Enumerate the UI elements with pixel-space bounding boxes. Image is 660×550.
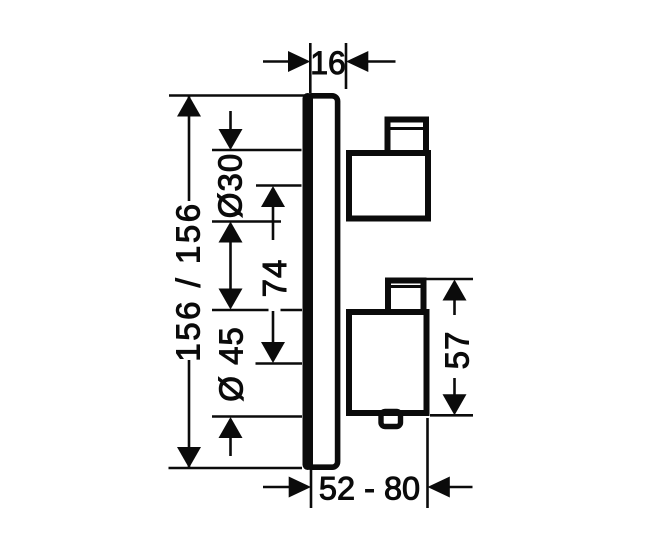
dim 16: left arrow [288, 51, 310, 72]
dim 16: left leader [263, 60, 289, 63]
dim 16: right arrow [346, 51, 368, 72]
wall plate thick front face band [303, 93, 314, 470]
svg-text:52 - 80: 52 - 80 [319, 471, 420, 507]
top handle body [349, 153, 428, 219]
dim O45: bottom extension line [212, 415, 302, 418]
dim O30: top arrow tail [229, 111, 232, 131]
dim 156/156: dimension line lower segment [188, 360, 191, 468]
dim 156/156: bottom arrow [177, 447, 201, 468]
dim 16: right leader [368, 60, 396, 63]
svg-text:Ø 45: Ø 45 [213, 326, 250, 402]
dim 57: bottom extension line [430, 414, 473, 417]
dim 156/156: top extension line [169, 94, 312, 97]
dim O30: top extension line [212, 149, 302, 152]
bottom handle body [349, 312, 427, 413]
wall plate outline (rounded escutcheon, side view) [306, 96, 338, 467]
bottom handle knob [388, 281, 424, 313]
svg-text:156 / 156: 156 / 156 [170, 201, 207, 361]
dim 52-80: left extension line [310, 466, 313, 508]
bottom handle lower tab [381, 412, 401, 427]
dim O30: top arrow (points down) [219, 129, 243, 150]
dim O45: bottom arrow (points up) [219, 417, 243, 438]
dim 156/156: top arrow [177, 96, 201, 117]
dim 74: top extension line [256, 184, 302, 187]
svg-text:16: 16 [310, 45, 346, 81]
dim O30: bottom extension line [212, 220, 281, 223]
dim 156/156: bottom extension line [169, 467, 303, 470]
dim 52-80: right arrow (points left) [428, 477, 450, 498]
dim 74: top arrow tail [272, 206, 275, 240]
dim 57: dimension line lower segment [453, 378, 456, 397]
dim 57: top extension line [427, 278, 474, 281]
dim 16: left extension line [309, 43, 312, 93]
svg-text:74: 74 [256, 259, 293, 298]
dim 156/156: dimension line upper segment [188, 96, 191, 202]
dim O45: bottom arrow tail [229, 437, 232, 456]
dim 57: dimension line upper segment [453, 299, 456, 315]
dim O45: top extension line (right of 74 leader) [281, 309, 303, 312]
dim 57: bottom arrow (points down) [443, 394, 467, 415]
dim 74: bottom arrow (points down) [261, 342, 285, 363]
dim O30: bottom arrow (points up) [219, 222, 243, 243]
dim 74: bottom extension line [256, 362, 303, 365]
dim O45: top arrow (points down) [219, 289, 243, 310]
dim 74: top arrow (points up) [261, 186, 285, 207]
dim 52-80: right leader [450, 486, 473, 489]
dim 16: right extension line [345, 43, 348, 89]
dim 52-80: right extension line [426, 418, 429, 508]
top handle knob [388, 120, 427, 154]
dim 52-80: left leader [263, 486, 289, 489]
dim 57: top arrow (points up) [443, 280, 467, 301]
top handle knob inner line [391, 127, 424, 130]
svg-text:57: 57 [439, 331, 476, 370]
svg-text:Ø30: Ø30 [212, 153, 249, 218]
dim 52-80: left arrow (points right) [289, 477, 311, 498]
dim O45: top extension line (left of 74 leader) [212, 309, 269, 312]
bottom handle knob inner line [391, 285, 421, 288]
dim 74: bottom arrow tail [272, 311, 275, 344]
dim O30/O45: shared leader between arrows [229, 241, 232, 289]
